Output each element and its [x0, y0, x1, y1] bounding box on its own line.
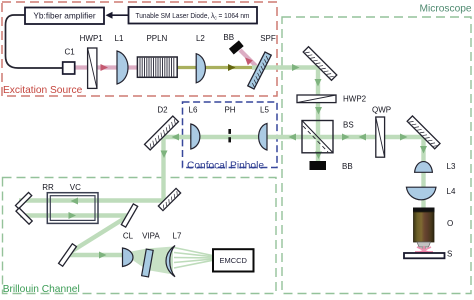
svg-text:L1: L1 — [115, 34, 124, 43]
svg-text:HWP1: HWP1 — [80, 34, 104, 43]
svg-text:EMCCD: EMCCD — [219, 256, 247, 265]
svg-text:QWP: QWP — [372, 106, 391, 115]
svg-text:Tunable SM Laser Diode, λc = 1: Tunable SM Laser Diode, λc = 1064 nm — [136, 11, 250, 21]
svg-text:PPLN: PPLN — [146, 34, 167, 43]
svg-text:VC: VC — [70, 183, 81, 192]
svg-text:L6: L6 — [189, 106, 198, 115]
svg-text:Confocal Pinhole: Confocal Pinhole — [187, 161, 264, 172]
svg-text:SPF: SPF — [260, 34, 276, 43]
svg-text:L5: L5 — [260, 106, 269, 115]
svg-text:VIPA: VIPA — [142, 231, 160, 240]
svg-text:BS: BS — [343, 121, 354, 130]
svg-text:Microscope: Microscope — [420, 4, 472, 15]
svg-text:Excitation Source: Excitation Source — [3, 85, 83, 96]
svg-text:BB: BB — [223, 33, 234, 42]
svg-text:CL: CL — [123, 231, 134, 240]
svg-text:L3: L3 — [447, 162, 456, 171]
svg-text:L4: L4 — [447, 187, 456, 196]
svg-text:BB: BB — [342, 162, 353, 171]
svg-text:S: S — [447, 250, 452, 259]
svg-text:O: O — [447, 219, 453, 228]
svg-text:C1: C1 — [64, 48, 75, 57]
svg-text:L2: L2 — [196, 34, 205, 43]
svg-text:PH: PH — [224, 106, 235, 115]
svg-text:Yb:fiber amplifier: Yb:fiber amplifier — [33, 11, 95, 21]
svg-text:RR: RR — [42, 183, 54, 192]
svg-text:D2: D2 — [157, 106, 168, 115]
svg-text:Brillouin Channel: Brillouin Channel — [3, 284, 80, 295]
svg-text:L7: L7 — [173, 231, 182, 240]
svg-text:HWP2: HWP2 — [343, 95, 367, 104]
